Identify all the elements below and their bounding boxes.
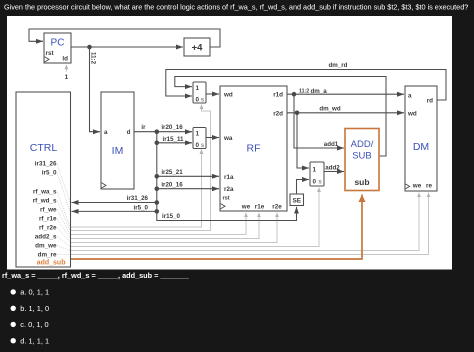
svg-text:d. 1, 1, 1: d. 1, 1, 1 [20, 336, 49, 345]
svg-text:1: 1 [196, 131, 200, 138]
svg-text:r1d: r1d [273, 92, 283, 99]
svg-text:PC: PC [51, 38, 65, 49]
svg-text:1: 1 [313, 167, 317, 174]
svg-text:ir15_11: ir15_11 [163, 136, 185, 143]
svg-text:ir25_21: ir25_21 [161, 169, 183, 176]
svg-text:11:2: 11:2 [299, 89, 309, 95]
svg-text:+4: +4 [192, 43, 204, 54]
svg-text:c. 0, 1, 0: c. 0, 1, 0 [20, 320, 48, 329]
svg-text:add_sub: add_sub [37, 260, 66, 267]
svg-text:SE: SE [292, 197, 301, 204]
svg-text:re: re [426, 183, 432, 190]
svg-text:r1a: r1a [224, 174, 234, 181]
svg-text:add2_s: add2_s [35, 234, 57, 241]
svg-text:ir20_16: ir20_16 [161, 124, 183, 131]
svg-text:d: d [127, 129, 131, 136]
svg-text:dm_we: dm_we [35, 243, 57, 250]
svg-text:dm_wd: dm_wd [319, 106, 341, 113]
svg-text:ADD/: ADD/ [351, 139, 374, 150]
svg-text:rf_wa_s: rf_wa_s [33, 189, 57, 196]
svg-text:r2e: r2e [272, 204, 282, 211]
svg-text:we: we [412, 183, 422, 190]
svg-text:add1: add1 [324, 141, 339, 148]
svg-text:dm_re: dm_re [38, 252, 57, 259]
svg-text:dm_rd: dm_rd [329, 62, 348, 69]
svg-text:s: s [201, 142, 205, 149]
svg-text:add2: add2 [325, 165, 340, 172]
svg-text:sub: sub [354, 177, 369, 187]
svg-text:DM: DM [413, 141, 429, 153]
svg-text:1: 1 [65, 74, 69, 81]
svg-text:ld: ld [62, 56, 68, 63]
svg-text:0: 0 [313, 179, 317, 186]
svg-text:rf_wd_s: rf_wd_s [33, 198, 57, 205]
svg-text:rf_wa_s = _____, rf_wd_s = ___: rf_wa_s = _____, rf_wd_s = _____, add_su… [2, 271, 190, 280]
svg-text:CTRL: CTRL [30, 142, 58, 154]
svg-text:ir31_26: ir31_26 [35, 161, 57, 168]
svg-text:dm_a: dm_a [311, 88, 328, 95]
svg-text:Given the processor circuit be: Given the processor circuit below, what … [4, 3, 468, 12]
svg-text:s: s [201, 97, 205, 104]
svg-text:rst: rst [46, 50, 55, 57]
svg-text:wa: wa [223, 135, 233, 142]
svg-text:s: s [318, 179, 322, 186]
svg-text:a. 0, 1, 1: a. 0, 1, 1 [20, 288, 49, 297]
svg-text:11:2: 11:2 [90, 52, 97, 65]
svg-text:ir5_0: ir5_0 [42, 170, 57, 177]
svg-text:ir20_16: ir20_16 [161, 181, 183, 188]
svg-text:a: a [408, 93, 412, 100]
svg-text:r1e: r1e [255, 204, 265, 211]
svg-text:ir5_0: ir5_0 [134, 204, 149, 211]
svg-text:rf_r2e: rf_r2e [39, 225, 57, 232]
svg-text:b. 1, 1, 0: b. 1, 1, 0 [20, 304, 49, 313]
svg-text:RF: RF [247, 143, 261, 155]
svg-text:0: 0 [196, 142, 200, 149]
svg-text:ir15_0: ir15_0 [162, 213, 180, 220]
svg-text:wd: wd [407, 111, 417, 118]
svg-text:rf_r1e: rf_r1e [39, 216, 57, 223]
svg-text:rf_we: rf_we [40, 207, 57, 214]
svg-text:ir: ir [141, 124, 146, 131]
svg-text:1: 1 [196, 85, 200, 92]
svg-text:rd: rd [427, 98, 433, 105]
svg-text:SUB: SUB [352, 151, 372, 162]
svg-text:a: a [104, 129, 108, 136]
svg-text:rst: rst [223, 196, 230, 202]
svg-text:IM: IM [112, 145, 124, 157]
svg-text:wd: wd [223, 92, 233, 99]
svg-text:we: we [241, 204, 251, 211]
svg-text:r2d: r2d [273, 110, 283, 117]
svg-text:r2a: r2a [224, 186, 234, 193]
svg-text:ir31_26: ir31_26 [127, 195, 149, 202]
svg-text:0: 0 [196, 97, 200, 104]
